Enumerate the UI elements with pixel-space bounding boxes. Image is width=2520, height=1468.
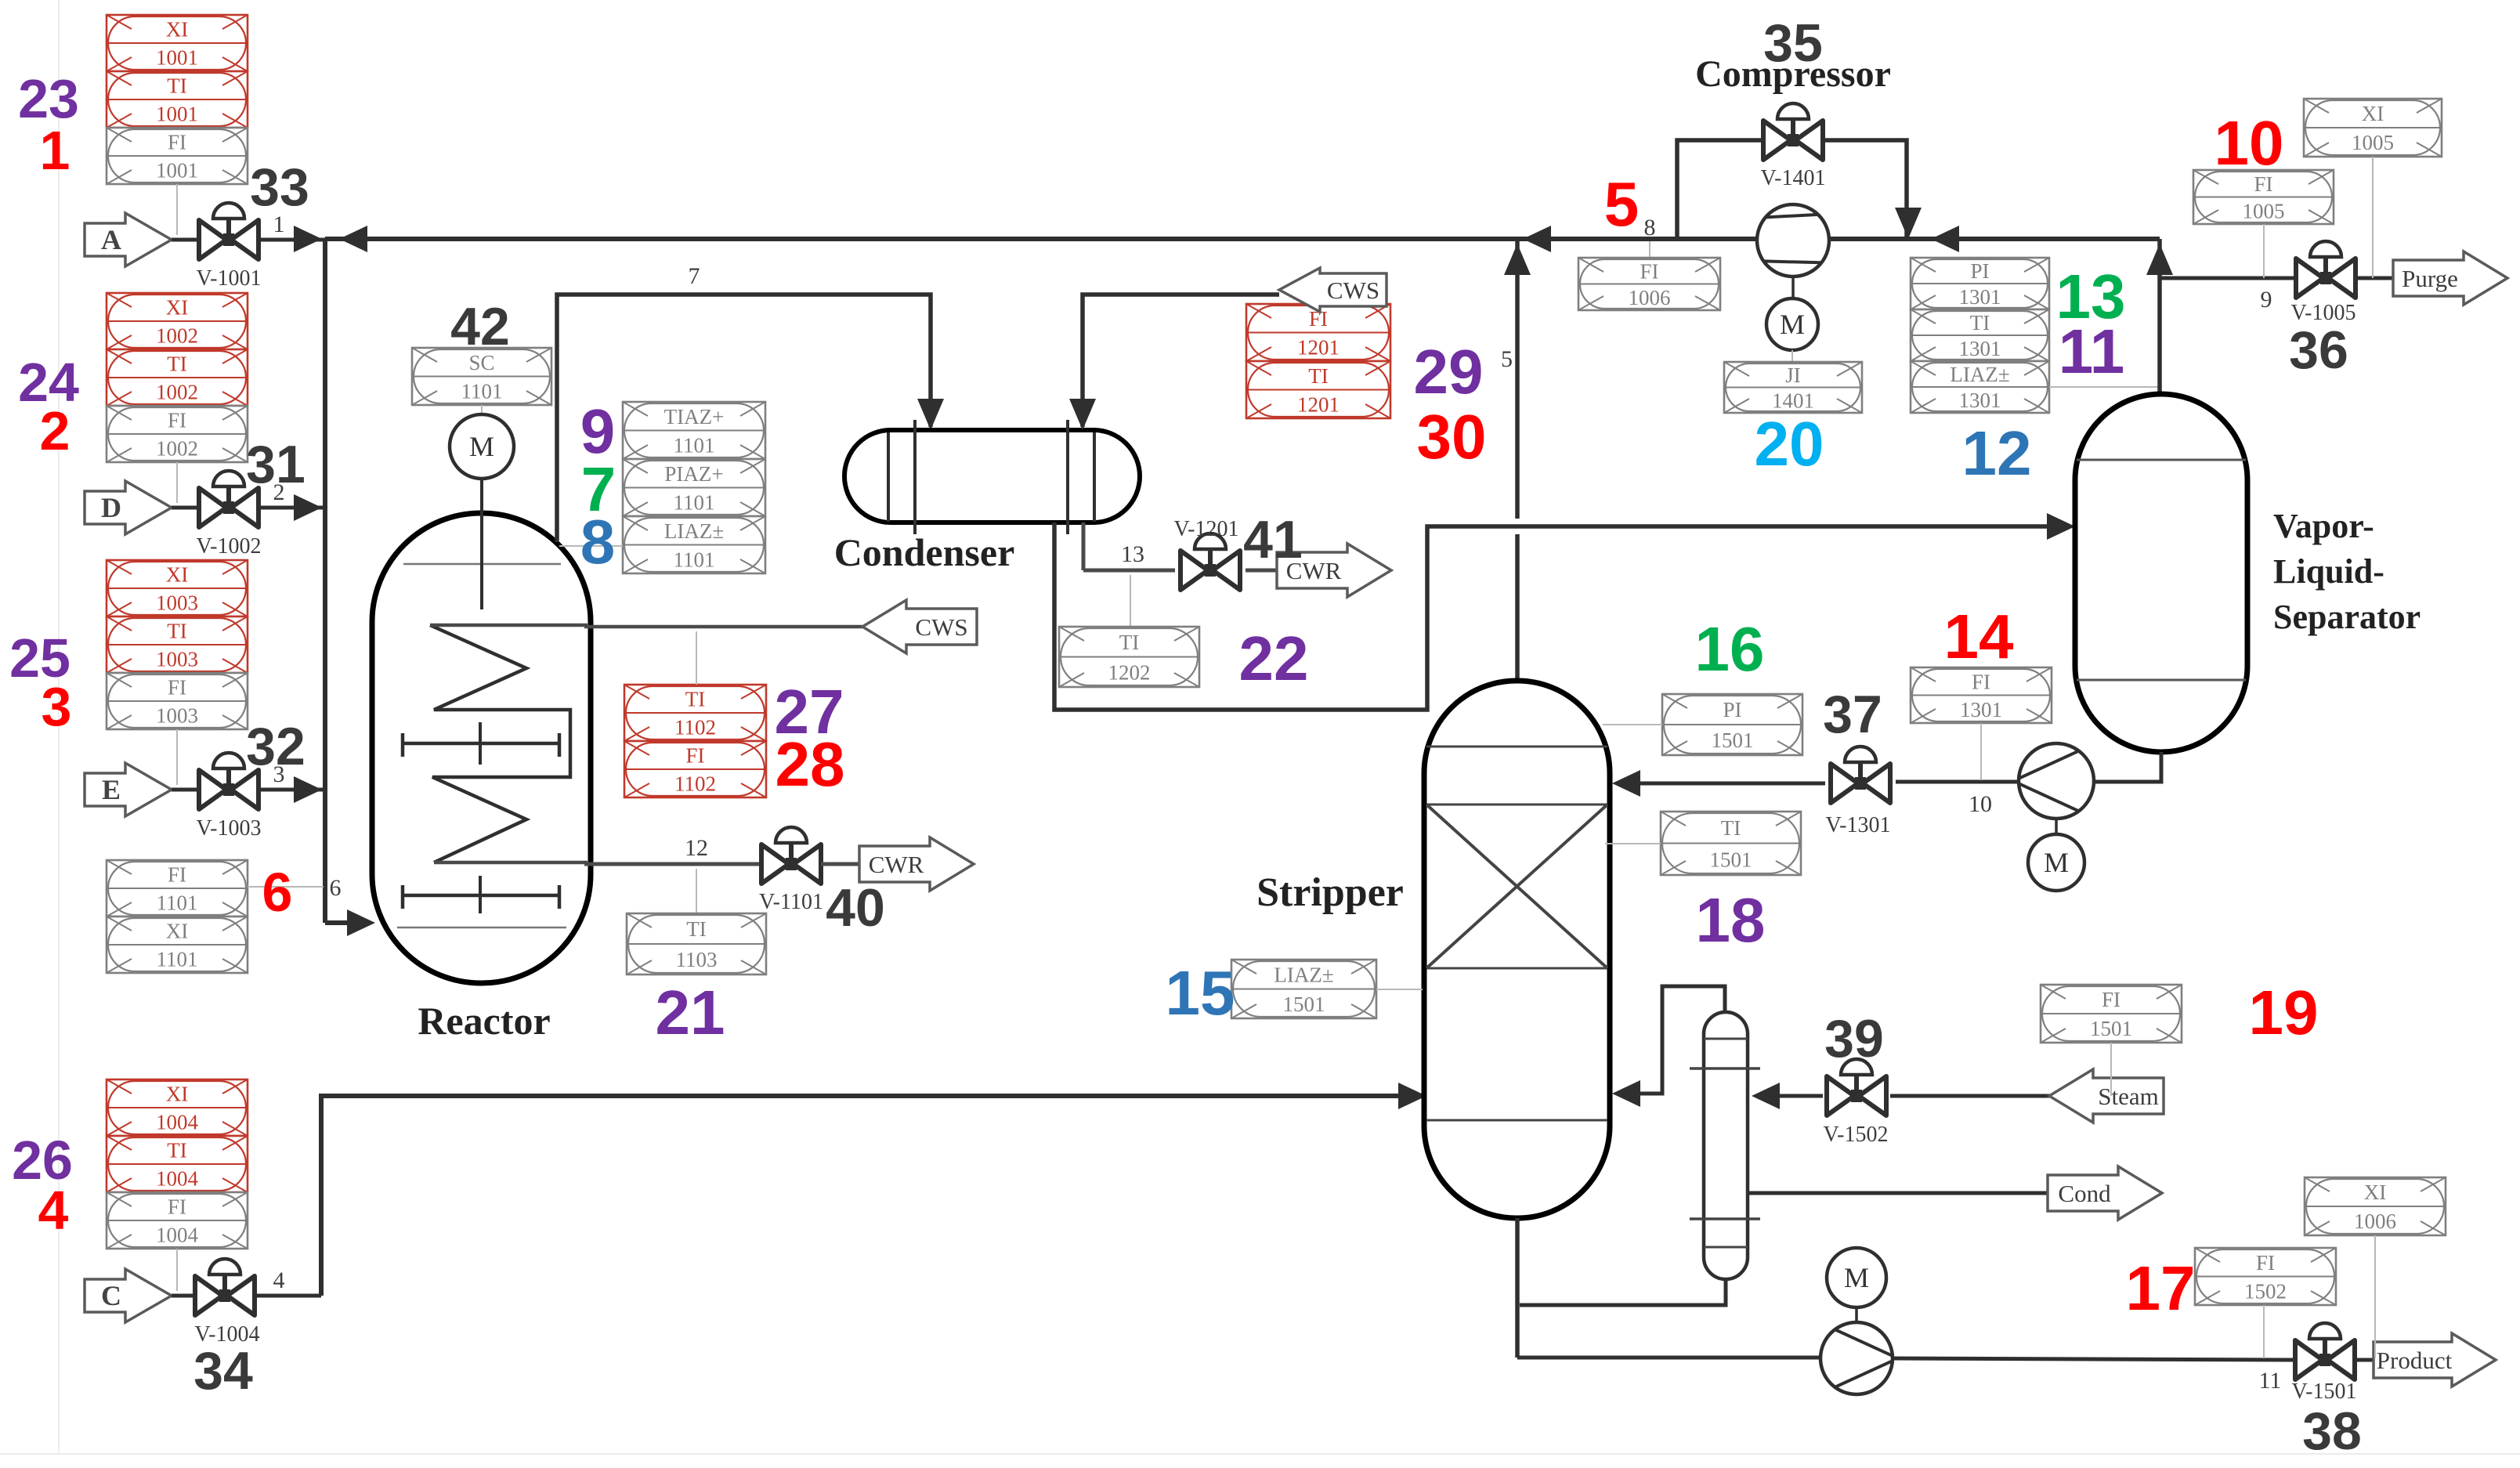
svg-text:1501: 1501 bbox=[2090, 1017, 2132, 1040]
label 31 bbox=[246, 435, 306, 494]
instrument TI 1501 bbox=[1661, 812, 1801, 875]
label V-1004 bbox=[195, 1322, 260, 1347]
label 20 bbox=[1755, 409, 1824, 479]
instrument stack XI/TI/FI 1001 bbox=[107, 15, 248, 184]
label V-1101 bbox=[759, 890, 823, 914]
feed arrow D bbox=[85, 481, 172, 534]
wire feed header to reactor bbox=[325, 909, 375, 936]
label 28 bbox=[776, 729, 845, 799]
stream label 11 bbox=[2259, 1368, 2282, 1394]
svg-text:V-1101: V-1101 bbox=[759, 890, 823, 914]
valve V-1001 bbox=[199, 203, 259, 259]
compressor motor M bbox=[1766, 298, 1818, 350]
svg-text:Condenser: Condenser bbox=[834, 530, 1015, 574]
svg-text:D: D bbox=[101, 492, 121, 523]
label 37 bbox=[1823, 685, 1882, 744]
label 36 bbox=[2289, 320, 2348, 380]
svg-text:1001: 1001 bbox=[156, 46, 198, 70]
tag line FI1101 to header bbox=[248, 886, 324, 888]
instrument XI 1006 bbox=[2305, 1177, 2446, 1235]
svg-text:40: 40 bbox=[826, 878, 885, 938]
label V-1502 bbox=[1824, 1123, 1889, 1147]
label 7 green bbox=[581, 454, 616, 524]
svg-text:36: 36 bbox=[2289, 320, 2348, 380]
svg-text:18: 18 bbox=[1696, 885, 1766, 955]
valve V-1005 bbox=[2296, 241, 2355, 298]
wire stream 13 bbox=[1083, 522, 1175, 570]
svg-text:15: 15 bbox=[1166, 958, 1235, 1028]
wire reactor CWS line bbox=[584, 625, 862, 629]
tag line TI1501 bbox=[1605, 843, 1661, 844]
stream label 12 bbox=[685, 835, 708, 861]
svg-text:A: A bbox=[101, 224, 121, 255]
label 41 bbox=[1243, 510, 1303, 569]
svg-text:42: 42 bbox=[450, 297, 510, 356]
label V-1501 bbox=[2292, 1379, 2357, 1404]
separator level lines bbox=[2077, 460, 2246, 680]
svg-text:12: 12 bbox=[685, 835, 708, 861]
tag line FI1005 bbox=[2263, 224, 2265, 278]
label 21 bbox=[656, 978, 725, 1047]
svg-text:CWS: CWS bbox=[1327, 277, 1379, 304]
svg-text:20: 20 bbox=[1755, 409, 1824, 479]
svg-text:C: C bbox=[101, 1280, 121, 1311]
valve V-1004 bbox=[195, 1259, 255, 1315]
svg-text:TI: TI bbox=[1308, 364, 1328, 388]
svg-text:V-1001: V-1001 bbox=[197, 266, 262, 291]
valve V-1502 bbox=[1827, 1059, 1886, 1115]
label 42 bbox=[450, 297, 510, 356]
label V-1301 bbox=[1826, 813, 1891, 837]
svg-text:1101: 1101 bbox=[157, 948, 198, 971]
instrument FI 1301 bbox=[1911, 667, 2052, 723]
label 32 bbox=[246, 717, 306, 776]
svg-text:10: 10 bbox=[1969, 791, 1992, 817]
feed arrow A bbox=[85, 213, 172, 266]
wire feed header vertical x415 bbox=[323, 239, 327, 923]
instrument SC 1101 bbox=[412, 348, 551, 405]
svg-text:1004: 1004 bbox=[156, 1224, 199, 1247]
svg-text:3: 3 bbox=[273, 761, 285, 787]
svg-text:M: M bbox=[469, 431, 494, 462]
wire cond line bbox=[1748, 1191, 2048, 1195]
label 35 bbox=[1763, 13, 1823, 73]
wire C feed line bbox=[172, 1294, 321, 1298]
label 14 bbox=[1944, 602, 2014, 671]
stream label 2 bbox=[273, 479, 285, 505]
svg-text:33: 33 bbox=[250, 157, 309, 217]
feed arrow E bbox=[85, 763, 172, 816]
svg-text:1101: 1101 bbox=[674, 490, 715, 514]
tag line XI1006 bbox=[2374, 1235, 2376, 1358]
compressor bbox=[1757, 204, 1829, 277]
valve V-1201 bbox=[1180, 533, 1240, 590]
svg-text:FI: FI bbox=[1972, 670, 1990, 693]
label 38 bbox=[2302, 1401, 2362, 1461]
instrument stack FI/XI 1101 bbox=[107, 860, 248, 973]
reactor vessel bbox=[372, 513, 591, 983]
svg-text:1301: 1301 bbox=[1959, 389, 2001, 412]
instrument JI 1401 bbox=[1724, 362, 1862, 413]
svg-text:16: 16 bbox=[1695, 614, 1765, 684]
svg-text:1301: 1301 bbox=[1960, 698, 2002, 721]
svg-text:14: 14 bbox=[1944, 602, 2014, 671]
svg-text:1102: 1102 bbox=[674, 716, 716, 739]
instrument stack XI/TI/FI 1002 bbox=[107, 293, 248, 462]
instrument TI 1202 bbox=[1059, 627, 1199, 687]
svg-text:Stripper: Stripper bbox=[1256, 870, 1404, 915]
tag line FI1006 bbox=[1649, 241, 1650, 258]
instrument stack TI/FI 1102 bbox=[624, 685, 766, 797]
svg-text:1002: 1002 bbox=[156, 324, 198, 348]
instrument stack TIAZ/PIAZ/LIAZ 1101 bbox=[623, 402, 765, 573]
label 8 blue bbox=[580, 507, 616, 577]
wire steam to reboiler bbox=[1752, 1083, 1823, 1109]
separator pump motor M bbox=[2028, 834, 2084, 891]
label 33 bbox=[250, 157, 309, 217]
instrument PI 1501 bbox=[1662, 694, 1802, 755]
wire to CWR bbox=[821, 862, 859, 866]
svg-text:1202: 1202 bbox=[1108, 660, 1151, 684]
svg-text:6: 6 bbox=[262, 862, 293, 923]
svg-text:TI: TI bbox=[167, 620, 186, 643]
tag line SC1101 to motor bbox=[481, 405, 483, 417]
svg-text:1101: 1101 bbox=[461, 379, 503, 403]
svg-text:M: M bbox=[1780, 309, 1805, 340]
reactor agitator shaft bbox=[480, 479, 483, 609]
instrument TI 1103 bbox=[627, 913, 766, 974]
node arrow into separator bbox=[2047, 513, 2075, 540]
label 3 bbox=[42, 676, 72, 737]
label 5 red bbox=[1604, 169, 1640, 239]
label 4 bbox=[38, 1180, 69, 1241]
svg-text:1006: 1006 bbox=[1629, 286, 1671, 309]
svg-text:1501: 1501 bbox=[1712, 729, 1754, 752]
svg-text:37: 37 bbox=[1823, 685, 1882, 744]
svg-text:5: 5 bbox=[1604, 169, 1640, 239]
svg-text:XI: XI bbox=[166, 296, 189, 320]
svg-text:4: 4 bbox=[273, 1267, 285, 1293]
tag line FI1201 bbox=[1318, 295, 1319, 304]
block arrow CWR condenser bbox=[1277, 544, 1391, 597]
svg-text:1101: 1101 bbox=[674, 548, 715, 571]
svg-text:28: 28 bbox=[776, 729, 845, 799]
svg-text:TI: TI bbox=[167, 1139, 186, 1162]
svg-text:V-1501: V-1501 bbox=[2292, 1379, 2357, 1404]
wire reboiler return bbox=[1612, 986, 1725, 1107]
wire main recycle header y305 bbox=[325, 237, 2160, 241]
svg-text:V-1002: V-1002 bbox=[197, 534, 262, 559]
stripper packing X bbox=[1426, 805, 1607, 968]
wire purge line bbox=[2160, 277, 2296, 280]
svg-text:PIAZ+: PIAZ+ bbox=[664, 462, 723, 486]
svg-text:M: M bbox=[2044, 847, 2069, 878]
stream label 1 bbox=[273, 212, 285, 237]
svg-text:FI: FI bbox=[168, 676, 186, 700]
label Vapor-Liquid-Separator bbox=[2273, 507, 2421, 636]
svg-text:12: 12 bbox=[1962, 418, 2032, 488]
tag line LIAZ1301 to separator bbox=[2049, 386, 2160, 388]
svg-text:1003: 1003 bbox=[156, 704, 198, 728]
svg-text:13: 13 bbox=[1121, 541, 1144, 567]
svg-text:1101: 1101 bbox=[157, 891, 198, 915]
svg-text:11: 11 bbox=[2259, 1368, 2282, 1394]
valve V-1002 bbox=[199, 471, 259, 527]
svg-text:7: 7 bbox=[689, 263, 700, 289]
svg-text:Separator: Separator bbox=[2273, 598, 2421, 636]
instrument FI 1005 bbox=[2193, 170, 2334, 224]
label Compressor bbox=[1695, 53, 1891, 95]
wire condenser CWS inlet bbox=[1069, 295, 1279, 430]
svg-text:1501: 1501 bbox=[1283, 993, 1325, 1016]
svg-text:8: 8 bbox=[580, 507, 616, 577]
svg-text:1003: 1003 bbox=[156, 648, 198, 671]
svg-text:FI: FI bbox=[685, 744, 704, 768]
svg-text:Steam: Steam bbox=[2098, 1083, 2159, 1110]
stream label 6 bbox=[330, 875, 342, 901]
svg-text:1002: 1002 bbox=[156, 381, 198, 404]
valve V-1101 bbox=[761, 827, 821, 884]
svg-text:JI: JI bbox=[1785, 363, 1801, 387]
svg-text:22: 22 bbox=[1239, 624, 1309, 693]
wire E feed line bbox=[172, 776, 325, 803]
label 26 bbox=[12, 1130, 73, 1191]
tag line FI1002 to valve line bbox=[176, 462, 178, 503]
label Condenser bbox=[834, 530, 1015, 574]
wire stripper bottoms bbox=[1515, 1218, 1520, 1358]
svg-text:TI: TI bbox=[167, 74, 186, 98]
svg-text:1101: 1101 bbox=[674, 433, 715, 457]
wire steam line bbox=[1890, 1094, 2049, 1098]
stream label 13 bbox=[1121, 541, 1144, 567]
svg-text:5: 5 bbox=[1501, 346, 1513, 372]
svg-text:39: 39 bbox=[1824, 1009, 1884, 1068]
label Stripper bbox=[1256, 870, 1404, 915]
svg-text:1201: 1201 bbox=[1297, 392, 1340, 416]
svg-text:21: 21 bbox=[656, 978, 725, 1047]
instrument stack PI/TI/LIAZ 1301 bbox=[1911, 258, 2049, 413]
label 12 blue bbox=[1962, 418, 2032, 488]
reboiler interior lines bbox=[1690, 1039, 1760, 1247]
svg-text:1103: 1103 bbox=[676, 948, 718, 971]
label 39 bbox=[1824, 1009, 1884, 1068]
wire stream 12 line bbox=[584, 862, 761, 866]
label V-1001 bbox=[197, 266, 262, 291]
label 19 bbox=[2249, 978, 2319, 1047]
wire D feed line bbox=[172, 494, 325, 521]
reactor agitator motor M bbox=[450, 414, 514, 479]
tag line FI1004 to valve line bbox=[176, 1249, 178, 1291]
svg-text:1006: 1006 bbox=[2354, 1209, 2396, 1233]
instrument stack FI/TI 1201 bbox=[1246, 304, 1390, 418]
svg-text:CWS: CWS bbox=[915, 613, 967, 641]
valve V-1401 bbox=[1763, 103, 1823, 160]
instrument FI 1502 bbox=[2195, 1248, 2336, 1305]
node arrow into stripper stream4 bbox=[1398, 1083, 1426, 1109]
svg-text:V-1401: V-1401 bbox=[1761, 166, 1826, 190]
separator pump motor stem bbox=[2055, 819, 2058, 835]
svg-text:1: 1 bbox=[40, 120, 71, 181]
tag line XI1005 bbox=[2372, 157, 2374, 278]
reboiler vessel bbox=[1704, 1012, 1748, 1279]
wire A feed line bbox=[172, 238, 325, 242]
svg-text:FI: FI bbox=[2102, 988, 2120, 1011]
label V-1005 bbox=[2291, 301, 2356, 325]
block arrow CWR reactor bbox=[859, 837, 974, 891]
svg-text:1004: 1004 bbox=[156, 1111, 199, 1134]
svg-text:PI: PI bbox=[1723, 698, 1741, 721]
block arrow CWS reactor bbox=[862, 600, 977, 653]
svg-text:XI: XI bbox=[2364, 1181, 2387, 1204]
svg-text:41: 41 bbox=[1243, 510, 1303, 569]
valve V-1501 bbox=[2295, 1323, 2355, 1379]
svg-text:29: 29 bbox=[1414, 337, 1484, 407]
svg-text:19: 19 bbox=[2249, 978, 2319, 1047]
stripper vessel bbox=[1424, 681, 1610, 1218]
label 29 bbox=[1414, 337, 1484, 407]
tag line PI1501 bbox=[1603, 724, 1662, 725]
svg-text:XI: XI bbox=[166, 563, 189, 587]
label V-1201 bbox=[1174, 517, 1239, 541]
label 6 red bbox=[262, 862, 293, 923]
label 17 bbox=[2126, 1253, 2196, 1323]
tag line JI1401 bbox=[1791, 350, 1793, 362]
label 24 bbox=[18, 352, 79, 413]
svg-text:XI: XI bbox=[166, 920, 189, 943]
svg-text:1003: 1003 bbox=[156, 591, 198, 615]
svg-text:LIAZ±: LIAZ± bbox=[1950, 363, 2009, 386]
label 15 bbox=[1166, 958, 1235, 1028]
svg-text:1005: 1005 bbox=[2243, 199, 2285, 222]
svg-text:LIAZ±: LIAZ± bbox=[664, 519, 724, 543]
wire purge line 2 bbox=[2355, 277, 2395, 280]
reactor impeller bar 1 bbox=[403, 722, 559, 765]
svg-text:1301: 1301 bbox=[1959, 285, 2001, 309]
stream label 8 bbox=[1644, 215, 1656, 240]
wire reboiler bottoms bbox=[1520, 1279, 1726, 1305]
valve V-1003 bbox=[199, 753, 259, 809]
block arrow Product bbox=[2374, 1333, 2496, 1387]
wire product line right bbox=[1893, 1358, 2295, 1360]
svg-text:1102: 1102 bbox=[674, 772, 716, 796]
svg-text:E: E bbox=[102, 774, 121, 805]
svg-text:CWR: CWR bbox=[869, 851, 924, 878]
compressor motor stem bbox=[1791, 278, 1795, 299]
label 23 bbox=[18, 68, 79, 129]
tag line TI1202 bbox=[1130, 575, 1131, 627]
label Reactor bbox=[418, 999, 550, 1043]
separator pump bbox=[2019, 743, 2094, 819]
svg-text:1201: 1201 bbox=[1297, 335, 1340, 359]
feed arrow C bbox=[85, 1269, 172, 1322]
svg-text:2: 2 bbox=[273, 479, 285, 505]
reactor bottom level line bbox=[397, 927, 566, 929]
svg-text:8: 8 bbox=[1644, 215, 1656, 240]
svg-text:FI: FI bbox=[1640, 259, 1658, 283]
label 25 bbox=[9, 627, 71, 689]
tag line FI1003 to valve line bbox=[176, 729, 178, 785]
stream label 7 bbox=[689, 263, 700, 289]
label 30 bbox=[1417, 402, 1487, 472]
wire stream 7 bbox=[557, 295, 944, 542]
svg-text:M: M bbox=[1844, 1262, 1869, 1293]
svg-text:LIAZ±: LIAZ± bbox=[1274, 963, 1333, 986]
label 22 bbox=[1239, 624, 1309, 693]
svg-text:TI: TI bbox=[1119, 631, 1139, 654]
svg-text:XI: XI bbox=[166, 18, 189, 42]
product pump bbox=[1820, 1322, 1893, 1394]
svg-text:PI: PI bbox=[1970, 259, 1989, 283]
wire stream 10 bbox=[1896, 780, 2019, 784]
instrument stack XI/TI/FI 1004 bbox=[107, 1079, 248, 1249]
node arrow left of stream5 junction bbox=[1523, 226, 1551, 252]
svg-text:TIAZ+: TIAZ+ bbox=[664, 405, 725, 428]
label V-1002 bbox=[197, 534, 262, 559]
wire separator riser bbox=[2146, 239, 2173, 394]
condenser tube lines bbox=[888, 420, 1094, 534]
label 18 bbox=[1696, 885, 1766, 955]
separator vessel bbox=[2075, 394, 2247, 752]
svg-text:XI: XI bbox=[2362, 102, 2384, 125]
reactor coil bbox=[430, 625, 588, 862]
tag line LIAZ1101 bbox=[559, 545, 623, 547]
label 1 bbox=[40, 120, 71, 181]
svg-text:34: 34 bbox=[193, 1341, 253, 1401]
svg-text:Vapor-: Vapor- bbox=[2273, 507, 2374, 545]
label 10 red bbox=[2214, 108, 2284, 178]
svg-text:FI: FI bbox=[168, 863, 186, 887]
svg-text:9: 9 bbox=[2261, 287, 2272, 313]
label 9 bbox=[580, 396, 616, 466]
tag line TI1103 bbox=[696, 869, 697, 913]
label V-1003 bbox=[197, 816, 262, 841]
svg-text:Cond: Cond bbox=[2058, 1180, 2111, 1207]
stream label 9 bbox=[2261, 287, 2272, 313]
svg-text:V-1301: V-1301 bbox=[1826, 813, 1891, 837]
svg-text:TI: TI bbox=[1721, 816, 1741, 840]
svg-text:TI: TI bbox=[685, 688, 705, 711]
svg-text:1301: 1301 bbox=[1959, 337, 2001, 360]
label 16 bbox=[1695, 614, 1765, 684]
block arrow CWS condenser bbox=[1279, 268, 1387, 312]
tag line FI1301 bbox=[1980, 723, 1982, 780]
svg-text:Reactor: Reactor bbox=[418, 999, 550, 1043]
svg-text:Purge: Purge bbox=[2402, 265, 2458, 292]
svg-text:XI: XI bbox=[166, 1083, 189, 1106]
instrument FI 1501 steam bbox=[2041, 985, 2182, 1043]
product pump motor M bbox=[1827, 1248, 1886, 1307]
wire product line left bbox=[1517, 1356, 1820, 1360]
wire to CWR cond bbox=[1246, 569, 1277, 573]
svg-text:1005: 1005 bbox=[2352, 131, 2394, 154]
label 34 bbox=[193, 1341, 253, 1401]
svg-text:1002: 1002 bbox=[156, 437, 198, 461]
block arrow Cond bbox=[2048, 1166, 2162, 1220]
stream label 5 bbox=[1501, 346, 1513, 372]
wire stream10 to stripper bbox=[1612, 770, 1825, 797]
svg-text:V-1201: V-1201 bbox=[1174, 517, 1239, 541]
block arrow Steam bbox=[2049, 1069, 2164, 1123]
svg-text:V-1502: V-1502 bbox=[1824, 1123, 1889, 1147]
wire compressor bypass bbox=[1677, 140, 1922, 239]
wire C feed riser bbox=[321, 1096, 1422, 1296]
stream label 4 bbox=[273, 1267, 285, 1293]
svg-text:FI: FI bbox=[168, 1195, 186, 1219]
svg-text:10: 10 bbox=[2214, 108, 2284, 178]
wire separator bottoms bbox=[2095, 752, 2161, 782]
svg-text:V-1003: V-1003 bbox=[197, 816, 262, 841]
svg-text:TI: TI bbox=[686, 917, 706, 941]
